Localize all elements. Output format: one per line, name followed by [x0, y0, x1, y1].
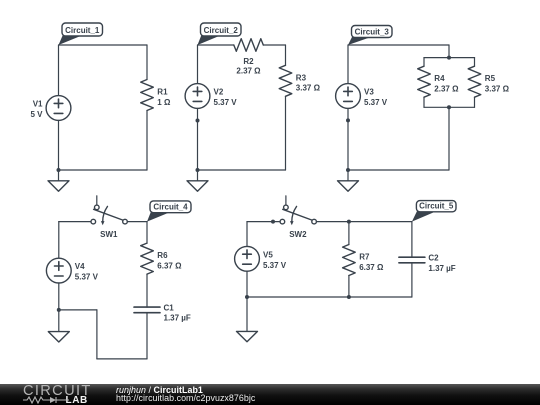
node C2 ground junction [196, 168, 200, 172]
wire C1 left vertical to V1 [58, 45, 60, 96]
logo resistor-diode glyph [23, 396, 69, 404]
ground circuit 4 [48, 310, 69, 342]
wire C4 V4 bottom to junction [58, 283, 60, 310]
svg-text:Circuit_5: Circuit_5 [419, 202, 454, 211]
wire C4 switch to corner [128, 221, 147, 223]
wire C5 C2 bottom lead [411, 263, 413, 297]
wire C3 R4 top lead [423, 58, 425, 67]
svg-text:R1: R1 [157, 88, 168, 97]
wire C1 right vertical upper [146, 45, 148, 80]
svg-text:R3: R3 [296, 73, 307, 82]
node label Circuit_5 [412, 201, 456, 222]
resistor R1 1 ohm [141, 80, 171, 111]
ground circuit 2 [187, 170, 208, 191]
wire C2 top-right segment [263, 44, 285, 46]
wire C5 top-left segment to switch [247, 221, 280, 223]
resistor R2 2.37 ohm (horizontal) [234, 39, 263, 76]
wire C5 R7 bottom lead [348, 276, 350, 298]
svg-text:2.37 Ω: 2.37 Ω [434, 85, 459, 94]
svg-text:6.37 Ω: 6.37 Ω [157, 261, 182, 270]
node C5 R7 top junction [347, 220, 351, 224]
node C3 below V3 [346, 118, 350, 122]
wire C1 right vertical lower [146, 111, 148, 171]
wire C3 parallel bottom bar [424, 106, 475, 108]
footer bar [0, 384, 540, 405]
wire C5 V5 bottom to bottom rail [246, 271, 248, 297]
resistor R6 6.37 ohm [141, 243, 182, 274]
wire C5 R7 top lead [348, 222, 350, 245]
svg-text:Circuit_4: Circuit_4 [153, 203, 188, 212]
wire C2 V2 bottom to bottom rail [197, 108, 199, 170]
wire C3 left vertical to V3 [347, 45, 349, 84]
node C5 bottom-left junction [245, 295, 249, 299]
svg-text:R2: R2 [243, 57, 254, 66]
ground circuit 1 [48, 170, 69, 191]
voltage source V1 5 V [30, 96, 70, 121]
voltage source V4 5.37 V [46, 258, 98, 283]
node C3 parallel top junction [447, 56, 451, 60]
wire C2 bottom rail [198, 169, 286, 171]
node C1 ground junction [57, 168, 61, 172]
svg-text:C1: C1 [164, 303, 175, 312]
node C2 below V2 [196, 119, 200, 123]
wire C2 right vertical upper [285, 45, 287, 65]
wire C4 R6 to C1 cap [146, 274, 148, 307]
svg-text:V5: V5 [263, 250, 273, 259]
node C5 before switch [271, 220, 275, 224]
switch SW1 [91, 196, 127, 239]
resistor R3 3.37 ohm [279, 65, 320, 96]
voltage source V3 5.37 V [336, 84, 388, 109]
CircuitLab logo [23, 384, 98, 405]
wire C3 parallel top bar [424, 57, 475, 59]
svg-text:C2: C2 [428, 254, 439, 263]
wire C1 top rail [59, 44, 148, 46]
wire C5 switch to C2 corner [317, 221, 412, 223]
wire C5 left vertical to V5 [246, 222, 248, 247]
wire C3 top drop to parallel pair [448, 45, 450, 58]
svg-text:5 V: 5 V [30, 110, 43, 119]
ground circuit 3 [338, 170, 359, 191]
svg-text:V3: V3 [364, 88, 374, 97]
capacitor C2 1.37 uF [399, 254, 456, 273]
wire C1 bottom rail [59, 169, 148, 171]
wire C3 right vertical lower [448, 107, 450, 170]
svg-text:1 Ω: 1 Ω [157, 98, 171, 107]
svg-text:3.37 Ω: 3.37 Ω [296, 84, 321, 93]
wire C2 left vertical to V2 [197, 45, 199, 84]
wire C4 cap bottom lead [146, 313, 148, 359]
svg-text:R7: R7 [359, 253, 370, 262]
svg-text:6.37 Ω: 6.37 Ω [359, 263, 384, 272]
node label Circuit_4 [147, 201, 191, 222]
svg-text:R5: R5 [485, 74, 496, 83]
wire C1 V1 bottom to ground node [58, 120, 60, 170]
svg-text:V4: V4 [75, 262, 85, 271]
wire C4 bottom horizontal return [97, 358, 147, 360]
wire C4 junction to return [59, 309, 97, 311]
ground circuit 5 [237, 297, 258, 342]
wire C3 R5 bottom lead [474, 97, 476, 107]
node C4 ground junction [57, 308, 61, 312]
svg-text:R4: R4 [434, 74, 445, 83]
node C3 parallel bottom junction [447, 105, 451, 109]
svg-text:SW2: SW2 [289, 230, 307, 239]
wire C3 top rail [348, 44, 449, 46]
wire C2 top-left segment [198, 44, 234, 46]
wire C3 bottom rail [348, 169, 449, 171]
resistor R4 2.37 ohm [418, 66, 459, 97]
resistor R5 3.37 ohm [468, 66, 509, 97]
node label Circuit_3 [348, 26, 392, 46]
svg-text:Circuit_2: Circuit_2 [204, 26, 239, 35]
svg-text:Circuit_3: Circuit_3 [355, 27, 390, 36]
wire C4 return vertical [96, 310, 98, 359]
wire C4 top-left segment to switch [59, 221, 91, 223]
node label Circuit_1 [59, 23, 103, 45]
svg-text:1.37 µF: 1.37 µF [164, 314, 191, 323]
footer text [116, 386, 255, 403]
svg-text:1.37 µF: 1.37 µF [428, 264, 455, 273]
svg-text:SW1: SW1 [100, 230, 118, 239]
svg-text:3.37 Ω: 3.37 Ω [485, 85, 510, 94]
resistor R7 6.37 ohm [343, 245, 384, 276]
wire C3 R4 bottom lead [423, 97, 425, 107]
svg-text:5.37 V: 5.37 V [75, 273, 99, 282]
svg-text:R6: R6 [157, 251, 168, 260]
wire C4 left vertical to V4 [58, 222, 60, 259]
wire C4 R6 top lead [146, 222, 148, 244]
voltage source V2 5.37 V [185, 84, 237, 109]
wire C3 R5 top lead [474, 58, 476, 67]
svg-text:V2: V2 [214, 88, 224, 97]
node label Circuit_2 [198, 23, 242, 45]
wire C5 bottom rail [247, 296, 412, 298]
svg-text:5.37 V: 5.37 V [364, 98, 388, 107]
switch SW2 [280, 196, 316, 239]
wire C5 C2 top lead [411, 222, 413, 258]
node C3 ground junction [346, 168, 350, 172]
node C5 R7 bottom junction [347, 295, 351, 299]
svg-text:5.37 V: 5.37 V [214, 98, 238, 107]
wire C3 V3 bottom to bottom rail [347, 108, 349, 170]
capacitor C1 1.37 uF [134, 303, 191, 322]
svg-text:5.37 V: 5.37 V [263, 261, 287, 270]
wire C2 right vertical lower [285, 96, 287, 170]
svg-text:V1: V1 [33, 100, 43, 109]
svg-text:2.37 Ω: 2.37 Ω [236, 67, 261, 76]
svg-text:Circuit_1: Circuit_1 [65, 26, 100, 35]
voltage source V5 5.37 V [235, 246, 287, 271]
